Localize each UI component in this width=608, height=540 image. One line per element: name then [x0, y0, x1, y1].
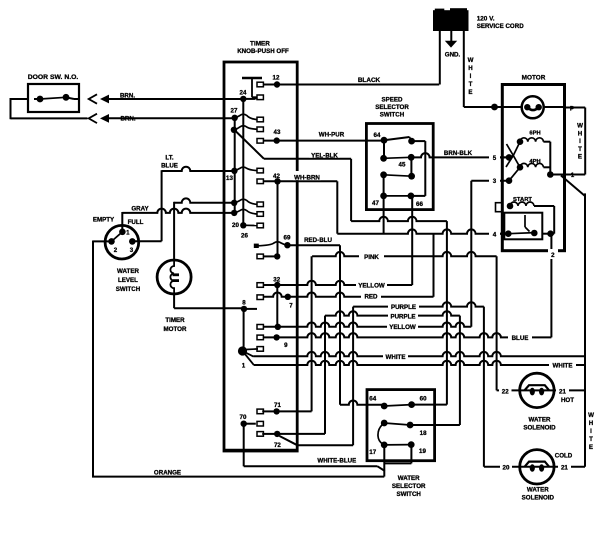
svg-text:SPEED: SPEED [382, 97, 404, 104]
svg-text:26: 26 [241, 233, 248, 240]
wire WHITE service drop [463, 30, 465, 107]
wire YELLOW lower [263, 323, 471, 327]
wire RED-BLU [287, 244, 340, 246]
wire water selector 64 feed [340, 400, 384, 404]
wire water selector 17 drop [383, 445, 385, 471]
svg-text:COLD: COLD [555, 453, 573, 460]
svg-text:GRAY: GRAY [131, 206, 149, 213]
svg-text:SELECTOR: SELECTOR [375, 104, 409, 111]
wire motor 1 diagonal [561, 176, 585, 197]
svg-text:LEVEL: LEVEL [118, 277, 138, 284]
wire 72 line [277, 433, 325, 435]
wire motor 3 drop [470, 181, 472, 327]
water solenoid cold coil [520, 466, 554, 468]
door switch dots [37, 96, 44, 103]
svg-text:SWITCH: SWITCH [396, 491, 421, 498]
svg-text:BRN.: BRN. [120, 93, 135, 100]
svg-text:YEL-BLK: YEL-BLK [311, 153, 338, 160]
svg-text:SOLENOID: SOLENOID [522, 495, 555, 502]
svg-text:MOTOR: MOTOR [164, 326, 187, 333]
wire door switch internal [34, 98, 40, 100]
svg-text:FULL: FULL [128, 219, 144, 226]
svg-text:7: 7 [289, 303, 293, 310]
speed switch right link 2-3 [410, 157, 412, 176]
motor START coil [510, 202, 534, 206]
wire WHITE bus 2 [254, 361, 585, 365]
wire motor 4 entry [500, 233, 508, 235]
wire WH-BRN horiz [263, 180, 337, 182]
svg-text:32: 32 [273, 277, 280, 284]
svg-text:6PH: 6PH [529, 131, 540, 137]
speed switch blade 1 [384, 137, 410, 140]
timer blade 13 [234, 167, 257, 171]
motor start coil drop [553, 206, 555, 234]
wire WH-PUR [263, 140, 384, 142]
speed switch left link 1-2 [383, 140, 385, 158]
timer motor coil [170, 261, 174, 294]
svg-text:BRN.: BRN. [120, 116, 135, 123]
svg-text:W: W [577, 123, 583, 130]
svg-text:TIMER: TIMER [250, 41, 270, 48]
svg-text:3: 3 [130, 247, 134, 254]
svg-text:YELLOW: YELLOW [389, 324, 416, 331]
timer 8 vertical [243, 309, 245, 351]
wire YEL-BLK to 60 [446, 221, 448, 405]
connector arrow lower [100, 114, 109, 123]
wire 72 diagonal [280, 436, 298, 445]
wire solenoid cold right [554, 466, 585, 468]
wire timer 24-20 vertical [242, 99, 244, 225]
water level switch circle [105, 225, 139, 259]
wire motor white loop [565, 107, 586, 109]
speed switch blade 3 [384, 175, 412, 176]
svg-text:13: 13 [226, 175, 233, 182]
wire water level 2 to orange [93, 240, 112, 242]
svg-text:60: 60 [420, 396, 427, 403]
wire motor start out [542, 233, 550, 235]
water solenoid hot coil [520, 389, 554, 391]
svg-text:E: E [578, 154, 582, 161]
svg-text:T: T [578, 146, 582, 153]
svg-text:WHITE: WHITE [386, 354, 406, 361]
wire PINK [312, 252, 497, 256]
wire timer 8 contact [244, 308, 257, 310]
water selector blade top [384, 405, 411, 406]
svg-text:27: 27 [231, 108, 238, 115]
svg-text:PURPLE: PURPLE [391, 304, 416, 311]
wire ORANGE [92, 476, 384, 478]
wire timer 70 contact [244, 423, 256, 425]
svg-text:ORANGE: ORANGE [154, 470, 181, 477]
timer terminal dots [274, 81, 280, 87]
svg-text:1: 1 [242, 363, 246, 370]
svg-text:24: 24 [240, 90, 247, 97]
timer blade gray [234, 199, 257, 204]
wire WHITE-BLUE [243, 424, 245, 467]
wire motor protector exit [544, 106, 565, 108]
svg-text:H: H [578, 130, 583, 137]
svg-text:19: 19 [419, 448, 426, 455]
svg-text:1: 1 [126, 230, 130, 237]
svg-text:E: E [468, 89, 472, 96]
svg-text:22: 22 [502, 389, 509, 396]
motor start inner box [504, 213, 542, 240]
svg-text:71: 71 [274, 402, 281, 409]
speed switch blade 2 [384, 157, 412, 158]
wire timer motor top [174, 198, 234, 202]
svg-text:E: E [589, 444, 593, 451]
svg-text:BLACK: BLACK [358, 77, 381, 84]
connector chevron upper [89, 94, 97, 103]
timer contact squares [257, 82, 263, 87]
wire BRN upper [106, 98, 243, 100]
svg-text:64: 64 [374, 132, 381, 139]
wire BLACK [263, 84, 439, 86]
wire timer motor bottom [173, 294, 175, 309]
svg-text:PURPLE: PURPLE [390, 314, 415, 321]
wire BRN-BLK [411, 153, 509, 157]
svg-text:3: 3 [493, 178, 497, 185]
svg-text:H: H [468, 65, 473, 72]
wire WHITE bus 1 [254, 352, 585, 356]
water selector switch box [367, 390, 435, 461]
svg-text:WHITE: WHITE [553, 363, 573, 370]
wire GRAY [122, 209, 234, 213]
svg-text:START: START [513, 197, 532, 203]
node service white junction [491, 104, 498, 111]
wire purple riser [352, 307, 354, 446]
wire GRAY riser [121, 212, 123, 233]
svg-text:120 V.: 120 V. [477, 16, 495, 23]
svg-text:69: 69 [284, 235, 291, 242]
water selector blade bottom [384, 444, 411, 446]
svg-text:2: 2 [114, 247, 118, 254]
svg-text:RED: RED [364, 294, 378, 301]
wire timer 71 contact [262, 410, 276, 412]
wire motor 5 [492, 156, 509, 158]
wire motor 2 drop [550, 234, 552, 338]
wire motor 3 link [509, 167, 520, 180]
water selector dots [381, 403, 388, 410]
water level switch blade [112, 232, 123, 242]
svg-text:T: T [589, 436, 593, 443]
wire LT-BLUE [162, 167, 235, 171]
speed switch blade 4 [384, 195, 411, 197]
timer blade 69 [258, 242, 288, 246]
wire water selector 19 drop [410, 445, 412, 464]
wire motor terminal 1 [550, 174, 564, 176]
timer 42 vertical [277, 181, 279, 256]
timer contact 69 stub [254, 244, 259, 248]
svg-text:SERVICE CORD: SERVICE CORD [477, 23, 525, 30]
svg-text:H: H [589, 420, 594, 427]
svg-text:W: W [468, 57, 474, 64]
label backgrounds [355, 73, 381, 83]
wire motor protector entry [502, 106, 521, 108]
wire YEL-BLK horiz [264, 158, 351, 160]
svg-text:P: P [570, 106, 574, 113]
wire timer 256 contact [263, 255, 277, 257]
svg-text:BLUE: BLUE [161, 163, 178, 170]
motor protector contacts [524, 104, 530, 110]
wire speed 47 drop [383, 196, 385, 234]
ground arrow [450, 30, 452, 41]
svg-text:WHITE-BLUE: WHITE-BLUE [317, 458, 356, 465]
svg-text:PINK: PINK [364, 254, 379, 261]
svg-text:66: 66 [416, 201, 423, 208]
svg-text:LT.: LT. [165, 155, 173, 162]
svg-text:I: I [470, 73, 472, 80]
svg-text:WH-BRN: WH-BRN [294, 175, 320, 182]
svg-text:72: 72 [274, 442, 281, 449]
svg-text:43: 43 [274, 129, 281, 136]
svg-text:YELLOW: YELLOW [358, 283, 385, 290]
motor start blade [508, 233, 534, 234]
door switch box [28, 84, 79, 112]
svg-text:SOLENOID: SOLENOID [523, 425, 556, 432]
svg-text:GND.: GND. [445, 52, 461, 59]
timer diagonal to yel-blk [236, 132, 264, 159]
connector arrow upper [100, 95, 109, 104]
timer common bar [242, 77, 262, 80]
motor dots [517, 138, 524, 145]
svg-text:21: 21 [559, 389, 566, 396]
svg-text:DOOR SW. N.O.: DOOR SW. N.O. [28, 74, 79, 81]
wire LT-BLUE drop [161, 170, 163, 241]
wire BLUE [263, 333, 551, 337]
wire BLACK service drop [439, 30, 441, 85]
svg-text:WATER: WATER [117, 268, 139, 275]
wire RED riser [433, 234, 435, 297]
motor start plunger [524, 215, 526, 227]
timer 32 vertical [276, 285, 278, 327]
wire solenoid hot right [554, 389, 585, 391]
svg-text:47: 47 [372, 200, 379, 207]
wire PURPLE lower [325, 311, 460, 315]
speed switch left link 3-4 [383, 175, 385, 196]
timer blade full [234, 209, 257, 214]
wire RED [263, 292, 434, 296]
svg-text:12: 12 [273, 75, 280, 82]
timer blade 20 [246, 224, 257, 226]
svg-text:4PH: 4PH [529, 159, 540, 165]
svg-text:I: I [590, 428, 592, 435]
svg-text:SWITCH: SWITCH [380, 112, 405, 119]
svg-text:5: 5 [493, 155, 497, 162]
svg-text:WATER: WATER [398, 475, 420, 482]
svg-text:17: 17 [369, 449, 376, 456]
wire YELLOW upper [263, 281, 412, 285]
svg-text:MOTOR: MOTOR [522, 75, 546, 82]
svg-text:SWITCH: SWITCH [116, 286, 141, 293]
wire PURPLE lower drop to 18 [459, 316, 461, 425]
svg-text:8: 8 [242, 300, 246, 307]
speed selector switch box [366, 124, 433, 210]
svg-text:9: 9 [284, 342, 288, 349]
wire timer 24 link [243, 98, 255, 100]
wire speed 66 drop [411, 196, 413, 285]
wire WH-BRN drop [336, 181, 338, 233]
svg-text:I: I [579, 138, 581, 145]
svg-text:WH-PUR: WH-PUR [319, 132, 345, 139]
timer box [224, 62, 297, 451]
water level switch dots [119, 229, 126, 236]
svg-text:20: 20 [503, 465, 510, 472]
wire WH-BRN lower [337, 229, 508, 233]
svg-text:18: 18 [420, 430, 427, 437]
wire white right vertical [584, 193, 586, 466]
svg-text:SELECTOR: SELECTOR [392, 483, 426, 490]
wire RED-BLU drop [339, 245, 341, 405]
svg-text:HOT: HOT [561, 397, 574, 404]
svg-text:EMPTY: EMPTY [93, 217, 115, 224]
timer terminal 1 dot [238, 346, 247, 355]
water solenoid cold circle [520, 450, 554, 484]
motor protector circle [522, 96, 544, 118]
svg-text:RED-BLU: RED-BLU [304, 237, 332, 244]
wire BRN lower [106, 117, 235, 119]
speed selector dots [381, 137, 388, 144]
wire PURPLE upper [353, 302, 484, 306]
svg-text:WATER: WATER [527, 487, 549, 494]
wire timer 27 vertical [234, 118, 236, 213]
timer blade 27b [234, 126, 257, 130]
motor 6PH-4PH link [549, 142, 551, 175]
svg-text:64: 64 [369, 396, 376, 403]
speed switch right bar [412, 140, 426, 142]
svg-text:KNOB-PUSH OFF: KNOB-PUSH OFF [237, 48, 289, 55]
wire YEL-BLK drop [350, 159, 352, 221]
svg-text:21: 21 [561, 465, 568, 472]
svg-text:42: 42 [273, 173, 280, 180]
wire 71 riser [277, 410, 312, 412]
svg-text:2: 2 [551, 252, 555, 259]
door switch blade [40, 97, 66, 99]
water selector curve [378, 423, 384, 445]
wire timer 72 contact [262, 433, 277, 435]
timer motor circle [157, 260, 191, 294]
motor box [502, 85, 564, 251]
timer big dot fan [243, 351, 254, 357]
svg-text:W: W [588, 412, 594, 419]
svg-text:1: 1 [571, 172, 575, 179]
svg-text:TIMER: TIMER [165, 317, 185, 324]
motor 4PH coil [520, 163, 543, 167]
motor centrifugal switch [513, 142, 520, 156]
svg-text:T: T [469, 81, 473, 88]
service cord plug [433, 10, 469, 31]
svg-text:70: 70 [240, 414, 247, 421]
svg-text:20: 20 [232, 222, 239, 229]
svg-text:WATER: WATER [529, 417, 551, 424]
wire PURPLE upper drop to 20 [483, 307, 485, 467]
water solenoid hot circle [520, 373, 554, 407]
wire door loop left [11, 98, 29, 100]
svg-text:BLUE: BLUE [512, 335, 529, 342]
connector chevron lower [89, 114, 97, 123]
wire PINK drop to solenoid 22 [496, 256, 498, 390]
motor 6PH coil [520, 138, 543, 142]
wire YEL-BLK lower [351, 217, 447, 221]
svg-text:BRN-BLK: BRN-BLK [444, 150, 473, 157]
svg-text:45: 45 [399, 162, 406, 169]
motor start bracket [496, 203, 503, 212]
svg-text:4: 4 [493, 232, 497, 239]
timer blade 27 [235, 114, 257, 119]
water selector blade mid [384, 423, 410, 425]
